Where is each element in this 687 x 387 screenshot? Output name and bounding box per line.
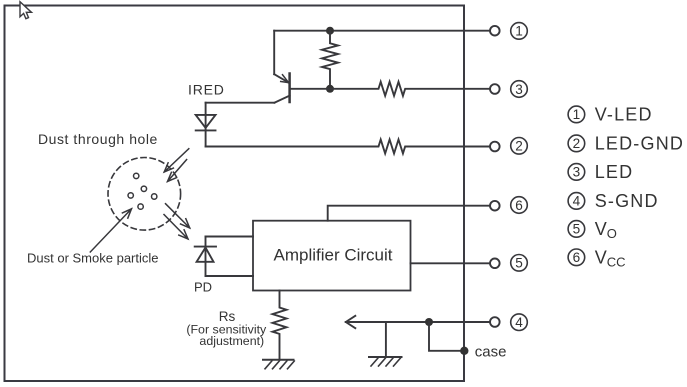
svg-text:S-GND: S-GND bbox=[595, 191, 659, 211]
photodiode PD bbox=[195, 237, 216, 277]
pin 1 terminal circle bbox=[490, 26, 500, 36]
node: junction bottom of R1 / base line bbox=[326, 85, 334, 93]
light arrow A3 (hole to PD) bbox=[166, 204, 190, 228]
svg-text:3: 3 bbox=[573, 165, 581, 180]
dust particle dot 5 bbox=[138, 204, 143, 209]
svg-text:2: 2 bbox=[515, 139, 523, 154]
resistor R1 (vertical, bias) bbox=[322, 31, 338, 89]
light arrow A4 (hole to PD) bbox=[164, 215, 188, 240]
pin number 3 bbox=[511, 81, 528, 98]
svg-text:case: case bbox=[475, 343, 507, 360]
pin 2 terminal circle bbox=[490, 142, 500, 152]
pin number 6 bbox=[511, 197, 528, 214]
dust particle dot 3 bbox=[128, 193, 133, 198]
svg-text:LED-GND: LED-GND bbox=[595, 134, 684, 154]
wire: junction to case bbox=[429, 322, 464, 351]
transistor Q1 base wire + resistor R2 + wire to pin 3 bbox=[290, 82, 490, 96]
ground G2 bbox=[369, 357, 402, 366]
svg-text:3: 3 bbox=[515, 82, 523, 97]
svg-text:LED: LED bbox=[595, 162, 634, 182]
svg-text:4: 4 bbox=[573, 194, 581, 209]
node: case connection dot bbox=[460, 347, 468, 355]
light arrow A1 (IRED to hole) bbox=[164, 149, 189, 172]
pin 5 terminal circle bbox=[490, 259, 500, 269]
pin number 4 bbox=[511, 314, 528, 331]
svg-text:6: 6 bbox=[573, 250, 581, 265]
legend pin 1 circled bbox=[568, 106, 585, 123]
pin number 1 bbox=[511, 23, 528, 40]
transistor Q1 collector diagonal bbox=[274, 96, 289, 103]
node: junction top of R1 bbox=[326, 27, 334, 35]
transistor Q1 emitter diagonal bbox=[274, 74, 288, 82]
wire: collector to IRED bbox=[206, 102, 275, 104]
svg-text:5: 5 bbox=[515, 256, 523, 271]
pin 3 terminal circle bbox=[490, 84, 500, 94]
svg-text:1: 1 bbox=[573, 107, 581, 122]
svg-text:VO: VO bbox=[595, 219, 617, 241]
svg-text:Dust through hole: Dust through hole bbox=[38, 131, 158, 147]
amplifier circuit box U1 bbox=[253, 221, 411, 291]
legend pin 3 circled bbox=[568, 164, 585, 181]
node: junction on S-GND rail bbox=[425, 318, 433, 326]
svg-text:IRED: IRED bbox=[188, 82, 225, 98]
svg-text:V-LED: V-LED bbox=[595, 105, 653, 125]
resistor Rs (sensitivity adjustment) bbox=[273, 291, 287, 360]
svg-text:6: 6 bbox=[515, 198, 523, 213]
svg-text:Dust or Smoke particle: Dust or Smoke particle bbox=[27, 251, 159, 266]
pin number 2 bbox=[511, 138, 528, 155]
ground G1 (below Rs) bbox=[263, 360, 294, 369]
mouse cursor bbox=[20, 2, 32, 19]
legend pin 5 circled bbox=[568, 221, 585, 238]
IRED vertical lead bbox=[205, 103, 207, 147]
svg-text:PD: PD bbox=[194, 280, 212, 295]
dust particle dot 1 bbox=[134, 173, 139, 178]
wire: PD bottom to amplifier bbox=[206, 275, 254, 277]
pin number 5 bbox=[511, 254, 528, 271]
wire: V-LED top rail to pin 1 bbox=[274, 30, 490, 32]
dust particle dot 2 bbox=[141, 186, 146, 191]
svg-text:5: 5 bbox=[573, 222, 581, 237]
wire: drop to ground G2 bbox=[385, 322, 387, 357]
wire: amplifier output to pin 5 bbox=[411, 262, 490, 264]
dust through hole dashed circle bbox=[108, 158, 181, 231]
svg-text:1: 1 bbox=[515, 24, 523, 39]
wire: amplifier Vcc to pin 6 bbox=[328, 206, 490, 221]
svg-text:adjustment): adjustment) bbox=[199, 334, 264, 348]
PD triangle bbox=[197, 248, 214, 262]
IRED cathode bar bbox=[196, 129, 216, 131]
transistor Q1 bbox=[274, 74, 289, 103]
PD vertical lead bbox=[205, 237, 207, 277]
legend pin 6 circled bbox=[568, 249, 585, 266]
wire: emitter lead vertical bbox=[273, 31, 275, 74]
svg-text:4: 4 bbox=[515, 315, 523, 330]
transistor Q1 emitter arrowhead bbox=[281, 75, 289, 83]
IRED diode D1 bbox=[196, 103, 216, 147]
svg-text:Amplifier Circuit: Amplifier Circuit bbox=[273, 246, 392, 265]
wire: PD top to amplifier bbox=[206, 236, 254, 238]
pin 4 terminal circle bbox=[490, 317, 500, 327]
wire: S-GND rail with left arrow to pin 4 bbox=[346, 316, 490, 328]
legend pin 4 circled bbox=[568, 193, 585, 210]
svg-text:2: 2 bbox=[573, 136, 581, 151]
PD cathode bar bbox=[195, 246, 216, 248]
outer case box bbox=[5, 6, 465, 382]
IRED triangle bbox=[196, 115, 216, 128]
light arrow A2 (IRED to hole) bbox=[168, 160, 187, 182]
svg-text:VCC: VCC bbox=[595, 248, 626, 270]
dust particle dot 4 bbox=[152, 194, 157, 199]
transistor Q1 bar bbox=[288, 74, 291, 103]
legend pin 2 circled bbox=[568, 135, 585, 152]
wire: IRED cathode + resistor R3 + wire to pin 2 bbox=[206, 140, 490, 154]
arrow: dust or smoke particle pointer bbox=[90, 209, 131, 252]
pin 6 terminal circle bbox=[490, 201, 500, 211]
